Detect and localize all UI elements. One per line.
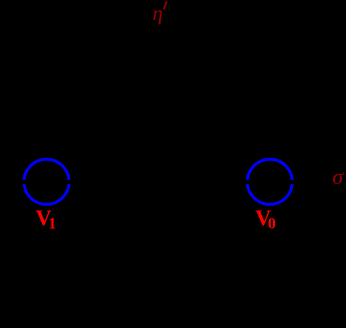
label V1 [36,205,57,232]
svg-text:η: η [153,1,163,25]
svg-text:1: 1 [48,216,56,233]
wire (black line crossing right circle) [241,180,299,184]
puncture circle V1 [24,159,69,204]
label V0 [255,205,276,233]
label eta-prime [153,1,167,25]
svg-text:0: 0 [268,216,276,233]
wire (black line crossing left circle) [18,180,75,184]
puncture circle V0 [247,159,292,204]
svg-text:σ: σ [332,164,344,189]
